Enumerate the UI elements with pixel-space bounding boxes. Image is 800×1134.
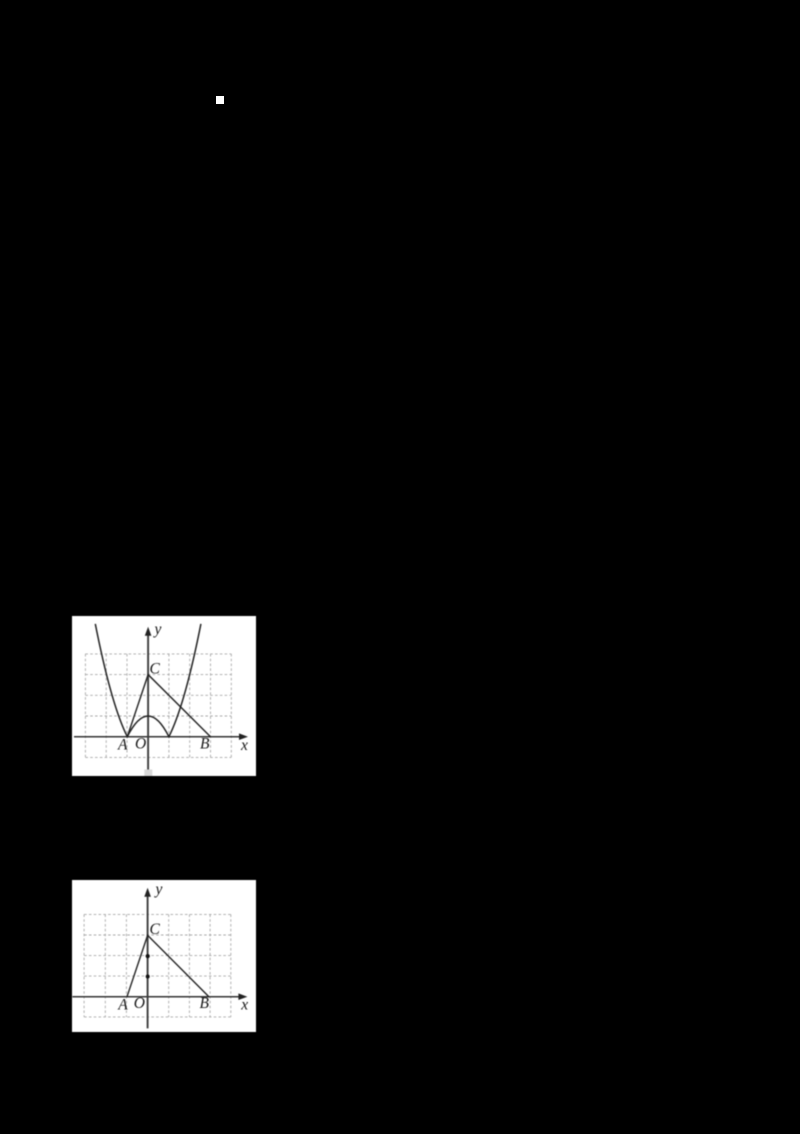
x-axis arrowhead	[239, 733, 248, 740]
svg-text:A: A	[117, 997, 128, 1014]
y-axis arrowhead	[144, 626, 151, 635]
svg-text:y: y	[152, 620, 161, 637]
svg-text:x: x	[240, 996, 248, 1013]
svg-text:y: y	[154, 881, 163, 898]
svg-text:x: x	[240, 737, 248, 754]
grid vertical dashed lines	[85, 653, 231, 757]
curve y=|x^2-1|	[95, 623, 201, 736]
svg-text:O: O	[134, 995, 145, 1012]
svg-text:O: O	[135, 735, 146, 752]
y-axis	[147, 894, 149, 1028]
point dot (0,1)	[146, 975, 150, 979]
figure 2 panel	[72, 880, 256, 1032]
point dot (0,2)	[146, 954, 150, 958]
svg-text:B: B	[200, 735, 210, 752]
grid vertical dashed lines	[84, 914, 231, 1017]
triangle ACB	[127, 935, 209, 996]
svg-text:C: C	[149, 660, 160, 677]
small white square bullet	[216, 96, 224, 104]
figure 1 panel	[72, 616, 257, 777]
gray square at axis bottom	[144, 769, 152, 776]
y-axis	[147, 633, 149, 769]
grid horizontal dashed lines	[85, 653, 231, 757]
x-axis	[72, 996, 241, 998]
y-axis arrowhead	[144, 888, 151, 897]
triangle ACB	[127, 674, 210, 736]
svg-text:B: B	[200, 995, 210, 1012]
svg-text:C: C	[150, 921, 161, 938]
svg-text:A: A	[117, 736, 128, 753]
grid horizontal dashed lines	[84, 914, 231, 1017]
x-axis arrowhead	[238, 993, 247, 1000]
x-axis	[74, 735, 242, 737]
